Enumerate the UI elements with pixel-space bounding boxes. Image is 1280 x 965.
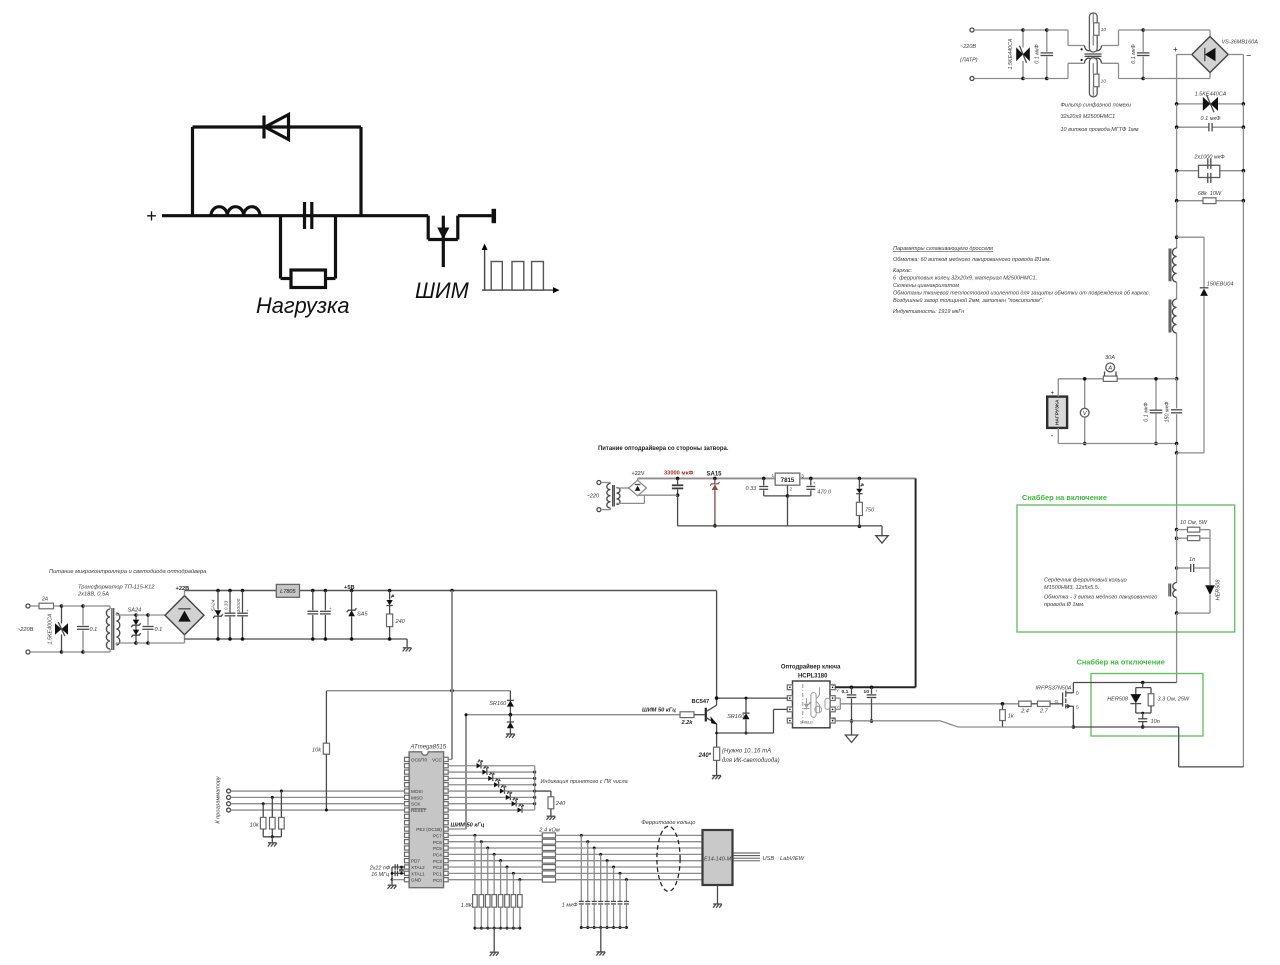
label HER508 on — [1216, 579, 1222, 601]
wire — [1177, 171, 1244, 201]
wire — [974, 30, 1023, 79]
diode SR160 clamp upper — [507, 691, 514, 715]
saturable inductor — [1169, 568, 1177, 613]
AC input terminal N — [970, 77, 974, 81]
resistor 10k pullup — [323, 691, 329, 812]
wire rail +5 — [300, 590, 717, 592]
wire load legs — [1057, 379, 1059, 444]
label 0.1 мкФ load — [1144, 402, 1150, 422]
bridge rectifier VS-36MB160A — [1192, 30, 1228, 79]
svg-text:Питание микроконтроллера и све: Питание микроконтроллера и светодиода оп… — [49, 568, 206, 575]
voltmeter V — [1080, 377, 1089, 445]
svg-text:1.5KE440CA: 1.5KE440CA — [1195, 92, 1227, 98]
svg-text:2х22 пФ: 2х22 пФ — [369, 866, 391, 872]
ground fork clamp — [506, 734, 515, 738]
label 2.2k — [681, 720, 694, 726]
capacitor 0.1 мкФ after filter — [1137, 28, 1150, 80]
regulator L7805 — [276, 584, 299, 597]
wire — [83, 606, 104, 652]
label 0.1 a — [90, 627, 98, 633]
label ШИМ 50 кГц mcu — [451, 823, 485, 829]
wire — [1031, 703, 1037, 705]
wire jog upper — [1068, 30, 1085, 46]
svg-text:240: 240 — [555, 801, 566, 807]
CM choke lower ring — [1089, 58, 1099, 97]
svg-text:Нагрузка: Нагрузка — [256, 293, 349, 318]
LED +15 indicator — [856, 477, 863, 503]
bridge +22V supply2 — [629, 480, 647, 496]
svg-text:SR160: SR160 — [489, 701, 507, 707]
wire down-right — [359, 127, 362, 216]
label 750 — [865, 508, 875, 514]
svg-text:PC1: PC1 — [433, 872, 442, 877]
wire drain link — [1073, 681, 1176, 685]
label 240* — [698, 753, 712, 759]
CM choke lower winding — [1085, 58, 1102, 63]
resistor 240 led — [535, 791, 554, 816]
label Оптодрайвер ключа — [781, 664, 841, 671]
svg-text:НАГРУЗКА: НАГРУЗКА — [1054, 399, 1060, 425]
caps bank bus — [581, 928, 626, 952]
supply2 ground bus — [678, 526, 882, 536]
diode HER508 off — [1130, 688, 1141, 713]
load chopper demo circuit: plus terminal — [146, 206, 157, 226]
label 0.1 мкФ bus — [1201, 116, 1222, 122]
wire collector to pin2 — [715, 696, 788, 700]
label minus — [1246, 51, 1252, 60]
resistor 240* — [714, 747, 720, 775]
HCPL internals — [800, 684, 830, 724]
wire emitter tap — [715, 709, 787, 734]
wire HCPL gnd — [835, 721, 1073, 727]
svg-text:10k: 10k — [312, 748, 322, 754]
label ШИМ 50 кГц drv — [642, 708, 676, 714]
label 10 Ом 5W — [1180, 520, 1208, 526]
label 150EBU04 — [1207, 282, 1234, 288]
svg-text:OC0/T0: OC0/T0 — [411, 757, 428, 762]
svg-text:RESET: RESET — [411, 808, 427, 813]
label G — [1055, 699, 1059, 705]
wire rail to drain — [1176, 613, 1178, 682]
svg-text:Трансформатор ТП-115-К12: Трансформатор ТП-115-К12 — [78, 585, 155, 591]
label 1.5KE440CA bus — [1195, 92, 1227, 98]
svg-text:10n: 10n — [1151, 719, 1160, 725]
wire up-left — [191, 127, 194, 216]
label SR160 clamp — [489, 701, 507, 707]
svg-text:–: – — [1246, 51, 1252, 60]
svg-text:1.8К: 1.8К — [461, 903, 473, 909]
svg-text:MISO: MISO — [411, 795, 423, 800]
fuse 2А — [30, 603, 62, 609]
regulator 7815 — [775, 473, 800, 485]
svg-text:0.1 мкФ: 0.1 мкФ — [1144, 402, 1150, 422]
wire Vcc — [835, 686, 915, 690]
freewheel diode (demo) — [264, 115, 289, 140]
label 10n — [1151, 719, 1160, 725]
wire — [162, 214, 428, 217]
wire PWM — [466, 714, 680, 716]
wire — [1177, 104, 1244, 127]
svg-text:2.2k: 2.2k — [681, 720, 694, 726]
label IRFPS37N50A — [1036, 686, 1072, 692]
svg-text:~220: ~220 — [587, 494, 600, 500]
label filter text — [1061, 102, 1139, 133]
svg-text:1: 1 — [772, 473, 775, 478]
zener SA5 — [347, 589, 357, 641]
label ~220В (ЛАТР) — [960, 44, 978, 64]
svg-text:SHIELD: SHIELD — [800, 720, 813, 724]
svg-text:Склеены цианакрилатом: Склеены цианакрилатом — [893, 283, 959, 289]
svg-text:G: G — [832, 717, 835, 721]
snubber core text — [1044, 577, 1157, 609]
ammeter shunt — [1103, 376, 1117, 381]
label ATmega8515 — [410, 745, 447, 751]
ferrite ring dashed — [657, 826, 680, 891]
PWM waveform axes — [482, 244, 560, 294]
wire 7815 gnd — [786, 485, 790, 526]
label VS-36MB160A — [1222, 40, 1259, 46]
svg-text:240*: 240* — [698, 753, 712, 759]
diode SR160 clamp lower — [507, 715, 514, 734]
svg-text:Обмотка: 60 витков медного лак: Обмотка: 60 витков медного лакированного… — [893, 257, 1051, 263]
capacitor hf b — [320, 589, 332, 641]
svg-text:Питание оптодрайвера со сторон: Питание оптодрайвера со стороны затвора. — [598, 445, 729, 452]
label 0.1 мкФ — [1131, 44, 1137, 64]
ground triangle supply2 — [876, 536, 888, 543]
wire — [1047, 30, 1068, 79]
svg-text:470.0: 470.0 — [817, 490, 832, 496]
svg-text:2А: 2А — [41, 597, 49, 603]
svg-text:PE2 (OC1B): PE2 (OC1B) — [416, 827, 442, 832]
resistor 2.7 — [1038, 701, 1051, 706]
svg-text:D: D — [1076, 691, 1080, 697]
svg-text:для ИК-светодиода): для ИК-светодиода) — [722, 758, 780, 764]
svg-text:10 Ом, 5W: 10 Ом, 5W — [1180, 520, 1208, 526]
crystal caps — [391, 864, 405, 881]
wire drain up — [1072, 683, 1074, 693]
smoothing choke — [1169, 248, 1176, 379]
MOSFET IRFPS37N50A — [1063, 691, 1074, 709]
capacitor 0.1 мкФ input — [1041, 28, 1054, 80]
wire load top — [1058, 378, 1176, 380]
wire E14 gnd — [717, 885, 719, 904]
programmer wires — [227, 789, 405, 812]
svg-text:2: 2 — [790, 487, 793, 492]
resistor 240 ind — [387, 614, 393, 641]
ground fork led — [546, 816, 555, 820]
LED cathode bus — [534, 766, 536, 810]
capacitor 0.1 мкФ load — [1150, 377, 1163, 445]
svg-text:10: 10 — [1101, 79, 1107, 84]
PC port wires with 2.4k resistors — [448, 833, 702, 882]
ground fork MCU — [388, 885, 397, 889]
svg-text:0,1: 0,1 — [842, 689, 849, 695]
ADC module E14-140-M — [703, 830, 733, 885]
label +22V — [632, 471, 645, 477]
label 10 — [864, 689, 879, 695]
capacitor (demo) — [305, 202, 312, 229]
svg-text:ATmega8515: ATmega8515 — [410, 745, 447, 751]
wire MCU gnd — [392, 880, 405, 885]
wire load bottom — [1058, 442, 1178, 446]
label 2х1000 мкФ — [1193, 155, 1225, 161]
wire gate — [1050, 703, 1063, 705]
label ~220 supply2 — [587, 494, 600, 500]
node — [1175, 611, 1179, 615]
load НАГРУЗКА box — [1047, 397, 1067, 428]
CM choke upper winding — [1085, 46, 1102, 51]
diode 150EBU04 — [1200, 288, 1209, 453]
resistor 2.4 — [1019, 701, 1031, 706]
supply1 terminals — [26, 604, 30, 654]
svg-text:150 мкФ: 150 мкФ — [1164, 401, 1170, 423]
svg-text:SA24: SA24 — [210, 599, 216, 611]
wire PWM vertical — [465, 713, 468, 829]
AC input terminal L — [970, 28, 974, 32]
TVS 1.5KE440CA bus — [1175, 96, 1245, 113]
label Индикация — [541, 779, 628, 785]
MCU ATmega8515 body — [409, 752, 444, 888]
LED array indication — [448, 760, 536, 813]
label HCPL3180 — [798, 674, 828, 680]
diode SR160 bc — [743, 697, 750, 735]
svg-text:ШИМ 50 кГц: ШИМ 50 кГц — [642, 708, 676, 714]
wire VCC drop — [451, 591, 453, 760]
label USB LabVIEW — [763, 856, 805, 862]
svg-text:Ферритовое кольцо: Ферритовое кольцо — [641, 820, 695, 826]
resistor 750 — [856, 502, 862, 528]
label 10 upper — [1101, 27, 1107, 32]
wire minus rail down — [1242, 201, 1244, 767]
label 30А — [1105, 355, 1115, 361]
resistor 2.2k — [680, 712, 706, 718]
ground fork bank — [490, 952, 499, 956]
inductor (demo) — [211, 207, 260, 216]
svg-text:10k: 10k — [250, 822, 260, 828]
svg-text:~220В: ~220В — [960, 44, 976, 50]
MCU pin labels right — [416, 757, 442, 882]
phase dot upper — [1081, 48, 1083, 50]
label +22В — [176, 586, 190, 592]
TVS 1.5KE440CA input — [1016, 28, 1030, 80]
supply2 terminals — [597, 481, 601, 512]
svg-text:Индикация принятого с ПК числа: Индикация принятого с ПК числа — [541, 779, 628, 785]
svg-text:1 мкФ: 1 мкФ — [562, 903, 578, 909]
svg-text:PC5: PC5 — [433, 846, 442, 851]
diode HER508 on — [1205, 568, 1214, 613]
svg-text:+22V: +22V — [632, 471, 645, 477]
svg-text:PC4: PC4 — [433, 853, 442, 858]
capacitor bank 2x1000 мкФ — [1175, 159, 1245, 183]
svg-text:+: + — [1173, 45, 1178, 54]
label S — [1076, 705, 1080, 711]
wire — [62, 606, 84, 652]
label minus — [1051, 431, 1054, 440]
svg-text:0.1: 0.1 — [155, 627, 163, 633]
wire rail down — [1176, 453, 1178, 530]
load branch right — [334, 216, 337, 279]
wire +5 clamp feed — [327, 689, 511, 693]
capacitors 1 мкФ bank — [579, 834, 629, 929]
wire plus rail top — [1177, 55, 1192, 104]
label 2х22 пФ — [369, 866, 391, 878]
HCPL pins — [787, 685, 835, 723]
svg-text:PC0: PC0 — [433, 878, 442, 883]
zeners SA24 supply1 — [131, 613, 140, 645]
capacitor 470.0 — [788, 477, 816, 496]
svg-text:10000: 10000 — [236, 598, 242, 612]
svg-text:HER508: HER508 — [1107, 697, 1129, 703]
svg-text:32х20х9 М2500НМС1: 32х20х9 М2500НМС1 — [1061, 114, 1116, 120]
svg-text:+5В: +5В — [344, 585, 355, 591]
label SR160 bc — [727, 714, 745, 720]
label SA15 — [707, 472, 723, 478]
label 10k pulldown — [250, 822, 260, 828]
svg-text:USB: USB — [763, 856, 775, 862]
svg-text:1.5KE400CA: 1.5KE400CA — [48, 613, 54, 644]
svg-text:Обмотка - 3 витка медного лаки: Обмотка - 3 витка медного лакированного — [1044, 595, 1157, 601]
node — [1175, 235, 1179, 239]
snubber2 join — [1136, 712, 1151, 715]
svg-text:Обмотаны тканевой теплостойкой: Обмотаны тканевой теплостойкой изолентой… — [893, 290, 1150, 297]
svg-text:LabVIEW: LabVIEW — [780, 856, 805, 862]
transistor BC547 — [706, 698, 718, 747]
ammeter A — [1105, 363, 1117, 376]
svg-text:VCC: VCC — [432, 757, 442, 762]
svg-text:+: + — [246, 608, 249, 613]
svg-text:ШИМ 50 кГц: ШИМ 50 кГц — [451, 823, 485, 829]
svg-text:150EBU04: 150EBU04 — [1207, 282, 1234, 288]
svg-text:10: 10 — [1101, 27, 1107, 32]
wire snubber bottom — [1177, 612, 1210, 614]
wire Vo — [840, 703, 1018, 705]
wire jog lower — [1068, 63, 1085, 78]
svg-text:2.4: 2.4 — [1020, 709, 1029, 715]
svg-text:SA15: SA15 — [707, 472, 723, 478]
svg-text:SCK: SCK — [411, 802, 421, 807]
wire gnd bend — [406, 639, 408, 647]
svg-text:XTAL2: XTAL2 — [411, 865, 425, 870]
svg-text:-: - — [1051, 431, 1054, 440]
label ШИМ — [415, 278, 470, 303]
node — [1175, 377, 1179, 381]
transformer supply1 — [104, 606, 120, 652]
svg-text:+: + — [875, 689, 878, 694]
label Ферритовое кольцо — [641, 820, 695, 826]
wire — [30, 651, 62, 653]
label 10k pullup — [312, 748, 322, 754]
svg-text:PC6: PC6 — [433, 840, 442, 845]
svg-text:Снаббер на отключение: Снаббер на отключение — [1077, 658, 1165, 667]
ground fork supply1 — [403, 648, 412, 652]
label 68k 10W — [1198, 191, 1222, 197]
svg-text:0.33: 0.33 — [223, 600, 229, 610]
label 1.5KE440CA — [1008, 38, 1014, 69]
label pins 7815 — [772, 473, 805, 492]
svg-text:PD7: PD7 — [411, 859, 420, 864]
capacitor 10 HCPL — [867, 687, 877, 723]
svg-text:Каркас:: Каркас: — [893, 268, 913, 274]
svg-text:1.5KE440CA: 1.5KE440CA — [1008, 38, 1014, 69]
svg-text:BC547: BC547 — [692, 699, 710, 705]
label plus — [1173, 45, 1178, 54]
wire — [1102, 63, 1144, 78]
node — [1175, 566, 1179, 570]
wire source down — [1072, 706, 1076, 729]
label 470.0 — [813, 481, 832, 496]
label +5В — [344, 585, 355, 591]
label 0.33 — [746, 486, 758, 492]
capacitor 10000 — [237, 589, 249, 641]
capacitor hf a — [307, 589, 318, 641]
label 240 ind — [395, 619, 406, 625]
svg-text:+: + — [329, 606, 332, 611]
wire — [1023, 30, 1047, 79]
svg-text:+: + — [146, 206, 157, 226]
svg-text:SA24: SA24 — [128, 608, 142, 614]
label 33000 мкФ — [664, 471, 693, 477]
wire PE2 — [448, 828, 466, 830]
svg-text:Параметры сглаживающего дроссе: Параметры сглаживающего дросселя — [893, 246, 993, 252]
svg-text:+: + — [813, 481, 816, 486]
svg-text:10: 10 — [864, 689, 870, 695]
zener SA24 b — [213, 589, 223, 641]
svg-text:Оптодрайвер ключа: Оптодрайвер ключа — [781, 664, 841, 671]
node — [1175, 528, 1179, 532]
label 1.8К — [461, 903, 473, 909]
resistors 10k pulldown — [260, 790, 284, 837]
svg-text:PC2: PC2 — [433, 865, 442, 870]
resistor 68k 10W — [1175, 198, 1245, 204]
gate terminal bar — [492, 209, 497, 223]
label Снаббер на отключение — [1077, 658, 1165, 667]
TVS 1.5KE400CA — [55, 604, 68, 654]
load branch left — [279, 216, 282, 279]
svg-text:3.3 Ом, 25W: 3.3 Ом, 25W — [1158, 697, 1190, 703]
CM choke upper ring — [1089, 13, 1099, 52]
svg-text:+: + — [1051, 391, 1055, 397]
label D — [1076, 691, 1080, 697]
MCU pin labels left — [411, 757, 428, 882]
label 1 мкФ — [562, 903, 578, 909]
svg-text:PC7: PC7 — [433, 834, 442, 839]
svg-text:E14-140-M: E14-140-M — [704, 856, 732, 862]
label Питание оптодрайвера — [598, 445, 729, 452]
svg-text:10 витков провода МГТФ 1мм: 10 витков провода МГТФ 1мм — [1061, 127, 1139, 133]
PWM pulses — [491, 262, 543, 291]
wire +5V to collector — [716, 591, 718, 699]
wire source return — [1073, 727, 1243, 767]
svg-text:Фильтр синфазной помехи: Фильтр синфазной помехи — [1061, 102, 1132, 109]
svg-text:PC3: PC3 — [433, 859, 442, 864]
label Питание микроконтроллера — [49, 568, 206, 575]
label 150 мкФ — [1164, 401, 1170, 423]
ground fork pulldown — [268, 843, 277, 847]
svg-text:2х1000 мкФ: 2х1000 мкФ — [1193, 155, 1225, 161]
capacitor 0.33 b — [225, 589, 236, 641]
wire rail +22 — [185, 591, 277, 596]
label 0.1 b — [155, 627, 163, 633]
capacitor 10n — [1138, 713, 1147, 729]
wire VCC — [448, 758, 452, 760]
label current note — [722, 749, 780, 765]
switch transistor (demo) — [428, 216, 491, 267]
label 1n — [1189, 557, 1195, 563]
USB wires — [733, 853, 761, 861]
svg-text:1n: 1n — [1189, 557, 1195, 563]
svg-text:ШИМ: ШИМ — [415, 278, 470, 303]
capacitor 0.1 мкФ bus — [1175, 123, 1245, 131]
